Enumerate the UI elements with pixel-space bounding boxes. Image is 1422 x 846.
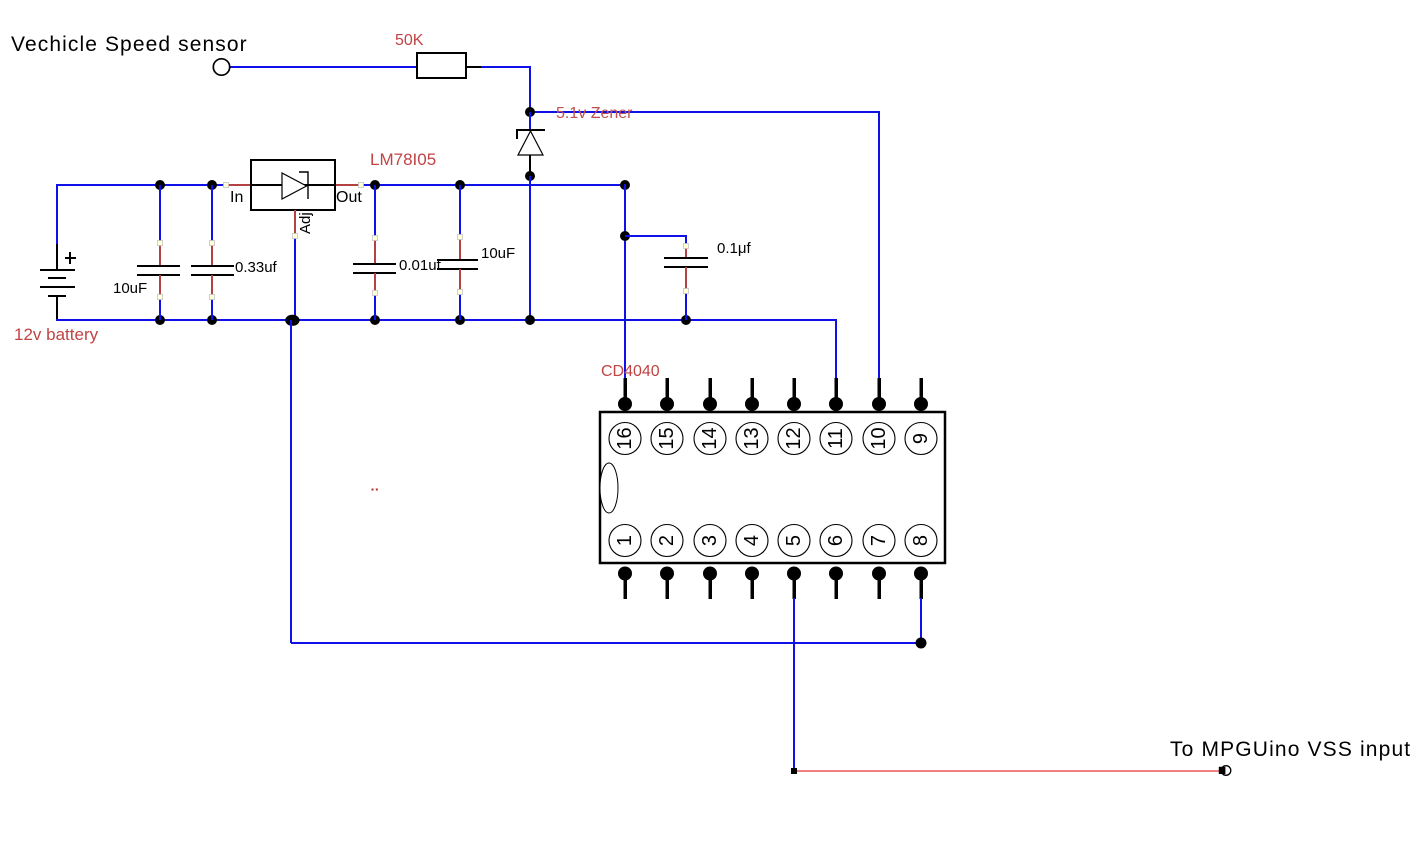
svg-text:3: 3 [699,535,721,546]
junction at zener cathode [525,107,535,117]
top supply rail [56,184,626,186]
pin-end markers [158,183,689,300]
junction at zener anode [525,171,535,181]
wire zener anode down to ground rail [529,176,531,320]
regulator Adj lead [294,210,296,321]
svg-text:50K: 50K [395,32,424,49]
wire top rail corner down to pin 16 [624,184,626,378]
svg-text:Adj: Adj [297,212,314,234]
svg-text:8: 8 [910,535,932,546]
pin 6 [820,525,852,600]
svg-text:To MPGUino VSS input: To MPGUino VSS input [1170,738,1411,761]
svg-text:0.1μf: 0.1μf [717,240,751,257]
svg-text:0.33uf: 0.33uf [235,259,278,276]
pin 11 [820,378,852,455]
VSS output terminal [1219,766,1231,776]
VSS output wire [797,770,1220,772]
IC notch [600,463,618,513]
svg-text:12v battery: 12v battery [14,325,99,344]
svg-text:12: 12 [783,427,805,449]
pin 9 [905,378,937,455]
svg-text:5: 5 [783,535,805,546]
junction at 0.1uf tap [620,231,630,241]
pin 4 [736,525,768,600]
wire pin 5 output [793,598,795,770]
ground loop to pin 8 [291,320,921,643]
svg-text:9: 9 [910,433,932,444]
capacitor C3 0.01uf [353,185,396,320]
pin 1 [609,525,641,600]
capacitor C4 10uF [437,185,478,320]
node marker at VSS output [791,768,797,774]
pin 16 [609,378,641,455]
svg-text:10uF: 10uF [481,245,515,262]
capacitor C2 0.33uf [191,185,234,320]
svg-text:5.1v Zener: 5.1v Zener [556,105,633,122]
svg-text:1: 1 [614,535,636,546]
pin 14 [694,378,726,455]
ground rail bottom [56,319,836,321]
svg-text:15: 15 [656,427,678,449]
wire tap to C5 [625,235,686,237]
pin 3 [694,525,726,600]
svg-text:Out: Out [336,189,362,206]
svg-text:10uF: 10uF [113,280,147,297]
pin 7 [863,525,895,600]
wire node to pin10 net [530,111,879,379]
wire resistor to corner [466,66,531,112]
junction dots top rail [155,180,165,190]
svg-text:2: 2 [656,535,678,546]
svg-text:10: 10 [868,427,890,449]
wire sensor to resistor [228,66,417,68]
resistor R1 50K [417,53,466,78]
svg-text:4: 4 [741,535,763,546]
ground rail to pin 11 [835,319,837,379]
svg-text:CD4040: CD4040 [601,363,660,380]
capacitor C1 10uF [137,185,180,320]
junction dots ground rail [155,315,165,325]
svg-text:11: 11 [825,428,847,449]
pin 15 [651,378,683,455]
pin 2 [651,525,683,600]
pin 13 [736,378,768,455]
pin 8 [905,525,937,600]
pin 12 [778,378,810,455]
pin 10 [863,378,895,455]
svg-text:0.01uf: 0.01uf [399,257,442,274]
junction at pin8 loop [916,638,927,649]
battery B1 12v [40,184,76,321]
pin 5 [778,525,810,600]
regulator U1 LM78I05 [251,160,335,210]
IC U2 CD4040 body [600,412,945,563]
svg-text:16: 16 [614,427,636,449]
stray marks [372,489,374,491]
svg-text:6: 6 [825,535,847,546]
zener diode D1 [517,112,545,176]
svg-text:Vechicle Speed sensor: Vechicle Speed sensor [11,33,248,56]
svg-text:In: In [230,189,243,206]
capacitor C5 0.1uf [664,235,708,320]
terminal: vehicle speed sensor input [213,59,229,75]
svg-text:LM78I05: LM78I05 [370,150,436,169]
svg-text:7: 7 [868,535,890,546]
svg-text:14: 14 [699,427,721,449]
svg-text:13: 13 [741,427,763,449]
